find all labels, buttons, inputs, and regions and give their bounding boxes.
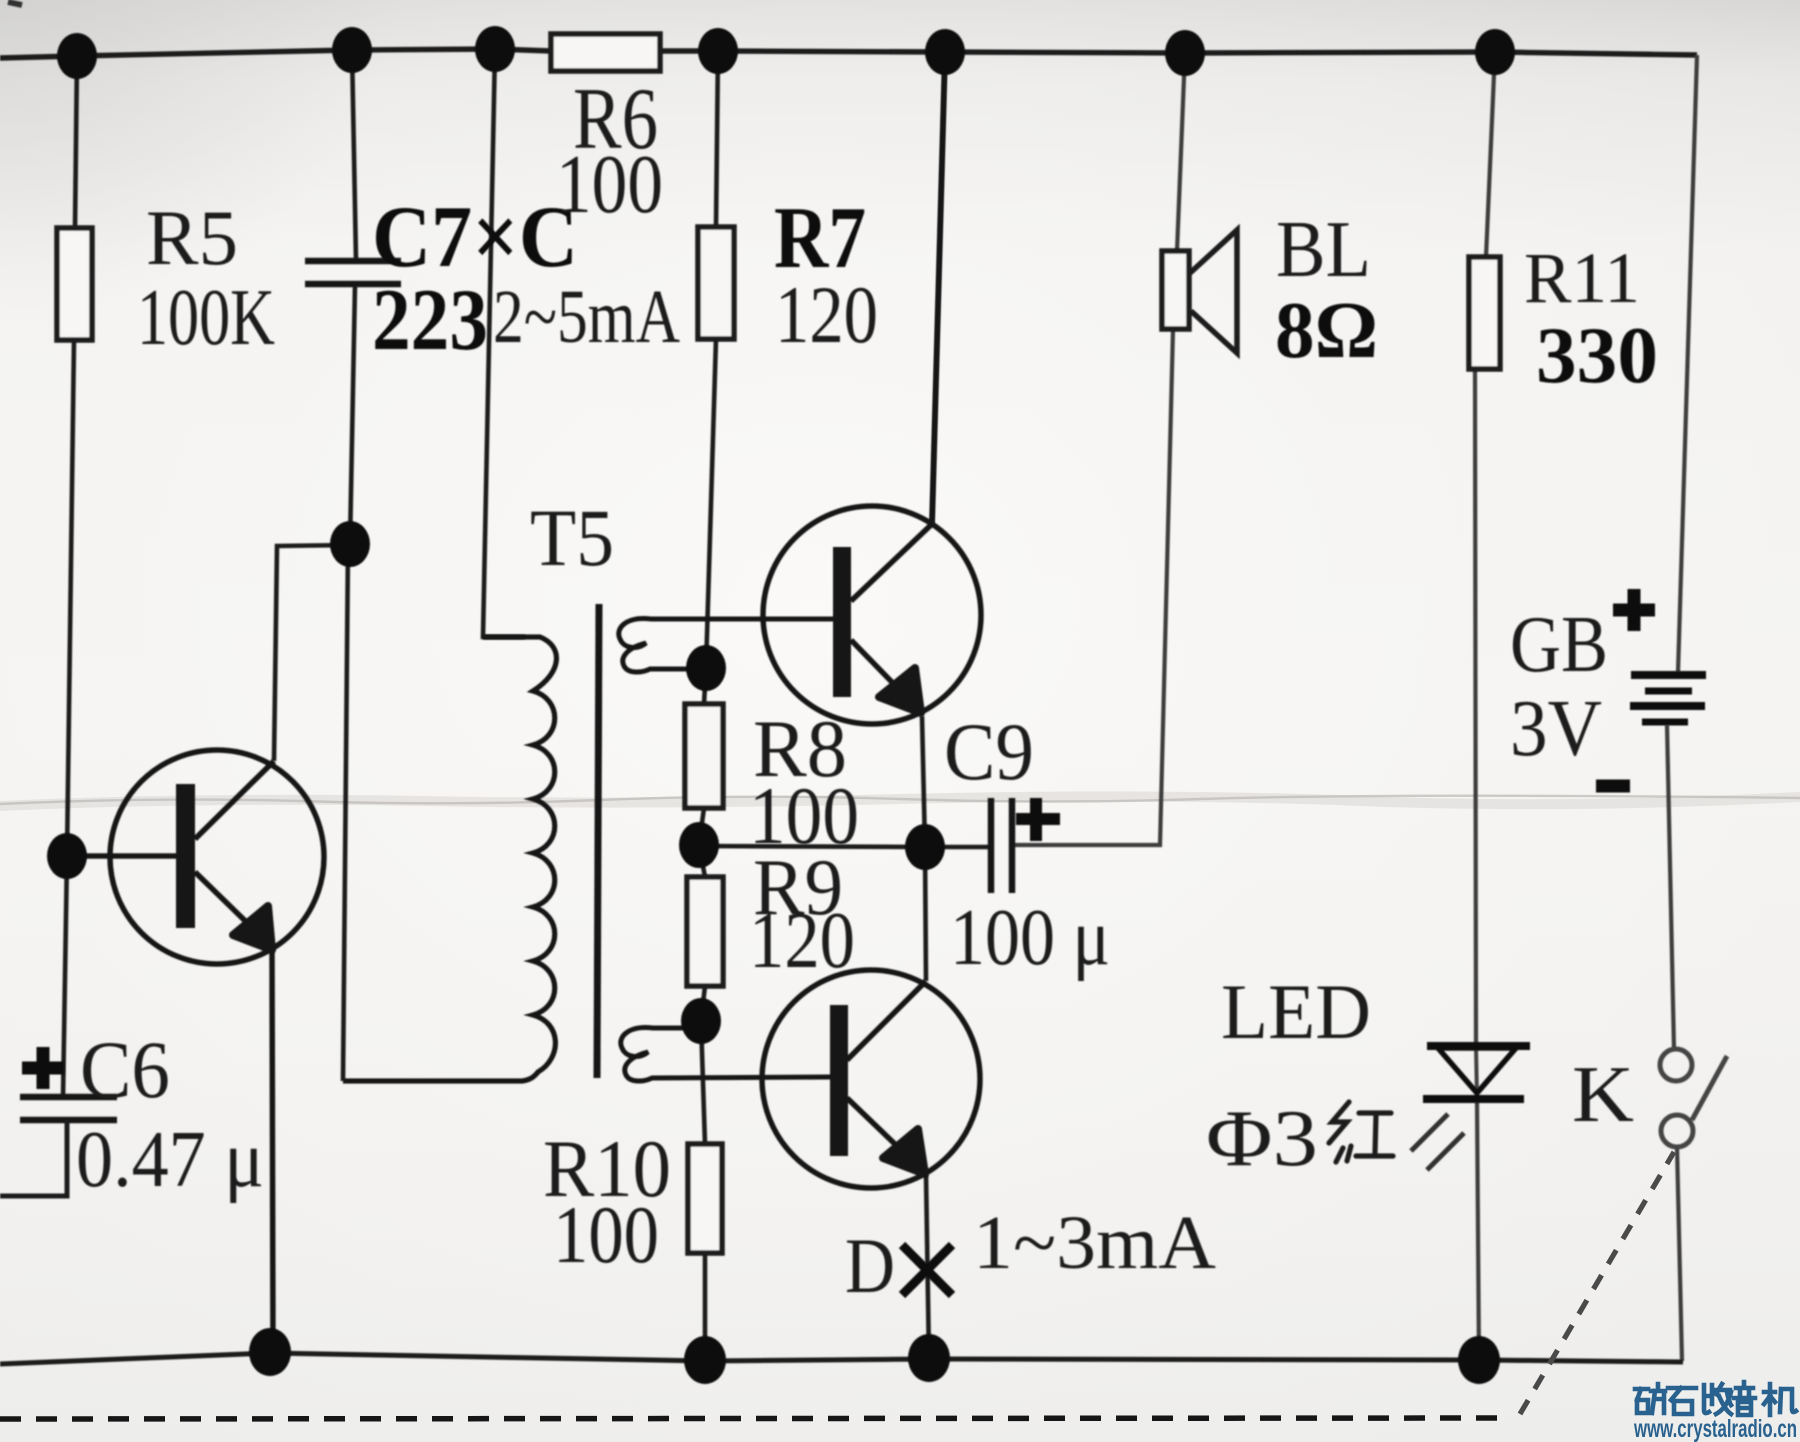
wire bottom rail [0, 1353, 1683, 1364]
junction V1 base [47, 833, 87, 879]
transistor V3 [762, 970, 980, 1188]
wire speaker to C9 [1012, 330, 1173, 845]
svg-text:223: 223 [372, 272, 488, 369]
svg-text:1~3mA: 1~3mA [973, 1201, 1216, 1285]
T5 secondary lower [621, 1028, 830, 1081]
svg-text:120: 120 [749, 897, 855, 985]
wire C7 branch [350, 50, 356, 544]
svg-text:C9: C9 [944, 706, 1034, 797]
resistor R11 [1469, 238, 1658, 400]
wire R11 drop [1475, 52, 1495, 1360]
svg-text:3V: 3V [1510, 685, 1602, 773]
dashed battery return line [0, 1418, 1512, 1419]
corner tick top-left [8, 2, 22, 5]
resistor R8 [685, 703, 859, 861]
svg-text:0.47 μ: 0.47 μ [76, 1116, 264, 1204]
svg-text:8Ω: 8Ω [1275, 287, 1378, 375]
junction secondary lower R9 R10 [681, 998, 721, 1044]
switch K [1572, 1049, 1727, 1147]
junction bottom rail LED [1458, 1336, 1500, 1384]
junction V2 emitter C9 [905, 824, 945, 870]
capacitor C9 [944, 706, 1110, 982]
wire switch to bottom corner [1677, 1147, 1682, 1361]
junction top rail R11 [1475, 29, 1515, 75]
junction top rail T5 primary [475, 26, 515, 72]
svg-text:Φ3: Φ3 [1206, 1095, 1318, 1183]
ji [1764, 1384, 1775, 1415]
kuang [1635, 1389, 1648, 1413]
wire right rail to battery [1678, 55, 1697, 672]
wire primary left side [343, 546, 348, 1081]
wire V3 emitter down [926, 1175, 929, 1359]
T5 primary winding [343, 637, 556, 1081]
wire R8R9 node to C9 [699, 846, 991, 847]
resistor R5 [57, 194, 275, 362]
resistor R10 [543, 1123, 722, 1280]
battery GB [1510, 589, 1706, 786]
watermark site name [1635, 1382, 1796, 1415]
wire V2 emitter to V3 collector [922, 716, 926, 981]
svg-text:2~5mA: 2~5mA [493, 275, 680, 359]
label red CJK hong [1329, 1102, 1393, 1162]
svg-text:D: D [845, 1222, 895, 1309]
wire battery to switch [1667, 725, 1674, 1049]
svg-text:C6: C6 [80, 1024, 170, 1115]
junction bottom rail V3 emitter [908, 1334, 950, 1382]
T5 secondary upper [619, 619, 833, 672]
transistor V2 [763, 54, 981, 724]
svg-text:BL: BL [1276, 206, 1371, 294]
junction top rail speaker [1165, 30, 1205, 76]
LED [1206, 968, 1530, 1183]
wire collector link V1 [274, 545, 350, 761]
wire top rail [0, 49, 1697, 58]
wire V2 collector up [932, 52, 945, 524]
junction top rail R5 [57, 33, 97, 79]
wire transformer primary top [483, 49, 525, 637]
shi [1668, 1388, 1696, 1414]
svg-text:R11: R11 [1524, 238, 1640, 318]
paper crease [0, 796, 1800, 806]
junction top rail V2 collector [925, 29, 965, 75]
junction R8 R9 node [679, 822, 719, 868]
svg-text:K: K [1572, 1051, 1634, 1139]
junction top rail R7 [698, 28, 738, 74]
wire R5 branch down [63, 56, 77, 1098]
svg-text:330: 330 [1536, 312, 1658, 400]
resistor R6 [551, 34, 663, 231]
shou [1704, 1385, 1712, 1413]
junction bottom rail V1 emitter [249, 1328, 291, 1376]
svg-text:100: 100 [553, 1189, 659, 1280]
junction bottom rail R10 [684, 1336, 726, 1384]
svg-text:100 μ: 100 μ [950, 894, 1110, 982]
resistor R7 [698, 190, 878, 360]
wire speaker drop [1177, 53, 1185, 251]
wire R6-R7 drop [699, 51, 718, 1361]
svg-text:100K: 100K [137, 274, 275, 362]
transistor V1 [67, 750, 324, 1353]
speaker BL [1162, 206, 1378, 375]
svg-text:T5: T5 [530, 492, 614, 583]
svg-text:100: 100 [556, 138, 663, 231]
resistor R9 [687, 844, 855, 986]
junction C7 to V1 collector [330, 521, 370, 567]
svg-text:GB: GB [1510, 601, 1608, 689]
transformer T5 [343, 492, 833, 1081]
junction secondary upper R7 R8 [686, 645, 726, 691]
junction top rail C7 [332, 27, 372, 73]
capacitor C7 [305, 189, 578, 369]
svg-text:LED: LED [1221, 968, 1371, 1055]
diode D cross label [845, 1201, 1216, 1309]
svg-text:R5: R5 [146, 194, 238, 281]
svg-text:www.crystalradio.cn: www.crystalradio.cn [1633, 1415, 1797, 1442]
capacitor C6 [0, 1024, 264, 1204]
yin [1734, 1382, 1755, 1415]
T5 core [597, 604, 599, 1078]
svg-text:120: 120 [775, 269, 878, 360]
